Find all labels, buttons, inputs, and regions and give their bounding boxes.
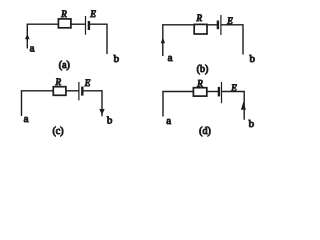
wire: (a) top horizontal, corner to resistor	[27, 23, 59, 25]
svg-text:R: R	[195, 13, 202, 23]
svg-text:b: b	[114, 53, 120, 65]
resistor R box (c)	[53, 87, 66, 96]
svg-text:b: b	[250, 53, 256, 65]
wire: (a) right vertical down to node b	[106, 24, 108, 55]
wire: (c) top horizontal, corner to resistor	[21, 90, 54, 92]
wire: (d) left vertical from corner to node a	[162, 92, 164, 117]
svg-text:a: a	[30, 43, 35, 55]
svg-text:a: a	[24, 113, 29, 125]
svg-text:(a): (a)	[59, 60, 70, 71]
battery E (a) long plate (left)	[85, 16, 87, 35]
wire: (c) battery to right corner	[83, 90, 102, 92]
svg-text:b: b	[249, 118, 255, 130]
svg-text:b: b	[107, 115, 113, 127]
battery E (b) short thick plate (left)	[217, 21, 219, 30]
battery E (d) short thick plate (left)	[218, 87, 220, 97]
svg-text:R: R	[196, 78, 203, 88]
wire: (b) battery to right corner	[222, 24, 244, 26]
wire: (b) left vertical from corner to node a	[162, 25, 164, 56]
svg-text:(b): (b)	[197, 64, 209, 75]
svg-text:E: E	[89, 9, 96, 19]
svg-text:(c): (c)	[52, 126, 63, 137]
current arrow (up) on (a) left wire	[25, 34, 30, 40]
wire: (b) right vertical down to node b	[242, 24, 244, 54]
wire: (d) battery to right corner	[222, 91, 244, 93]
wire: (a) between resistor and battery	[71, 23, 85, 25]
wire: (b) between resistor and battery	[207, 24, 217, 26]
svg-text:R: R	[60, 9, 67, 19]
wire: (d) between resistor and battery	[207, 91, 218, 93]
current arrow (down) on (c) right wire	[99, 109, 104, 115]
battery E (b) long plate (right)	[220, 15, 222, 35]
battery E (d) long plate (right)	[221, 82, 223, 103]
wire: (c) between resistor and battery	[66, 90, 79, 92]
svg-text:E: E	[84, 78, 91, 88]
wire: (a) battery to right corner	[90, 23, 108, 25]
resistor R box (a)	[58, 19, 71, 28]
battery E (a) short thick plate (right)	[88, 21, 90, 30]
current arrow (up) on (b) left wire	[161, 37, 165, 43]
wire: (d) top horizontal, corner to resistor	[162, 91, 193, 93]
svg-text:a: a	[168, 52, 173, 64]
resistor R box (d)	[193, 88, 206, 96]
svg-text:R: R	[55, 77, 62, 87]
wire: (d) right vertical down to node b	[243, 91, 245, 120]
current arrow (up) on (d) right wire	[241, 102, 246, 110]
battery E (c) long plate (left)	[78, 82, 80, 101]
svg-text:(d): (d)	[199, 126, 211, 137]
wire: (c) left vertical from corner to node a	[21, 91, 23, 116]
wire: (b) top horizontal, corner to resistor	[162, 24, 194, 26]
battery E (c) short thick plate (right)	[81, 87, 83, 96]
resistor R box (b), sits low on wire	[194, 24, 207, 34]
svg-text:a: a	[166, 115, 171, 127]
wire: (a) left vertical from corner to node a	[26, 24, 28, 48]
wire: (c) right vertical down to node b	[101, 90, 103, 116]
